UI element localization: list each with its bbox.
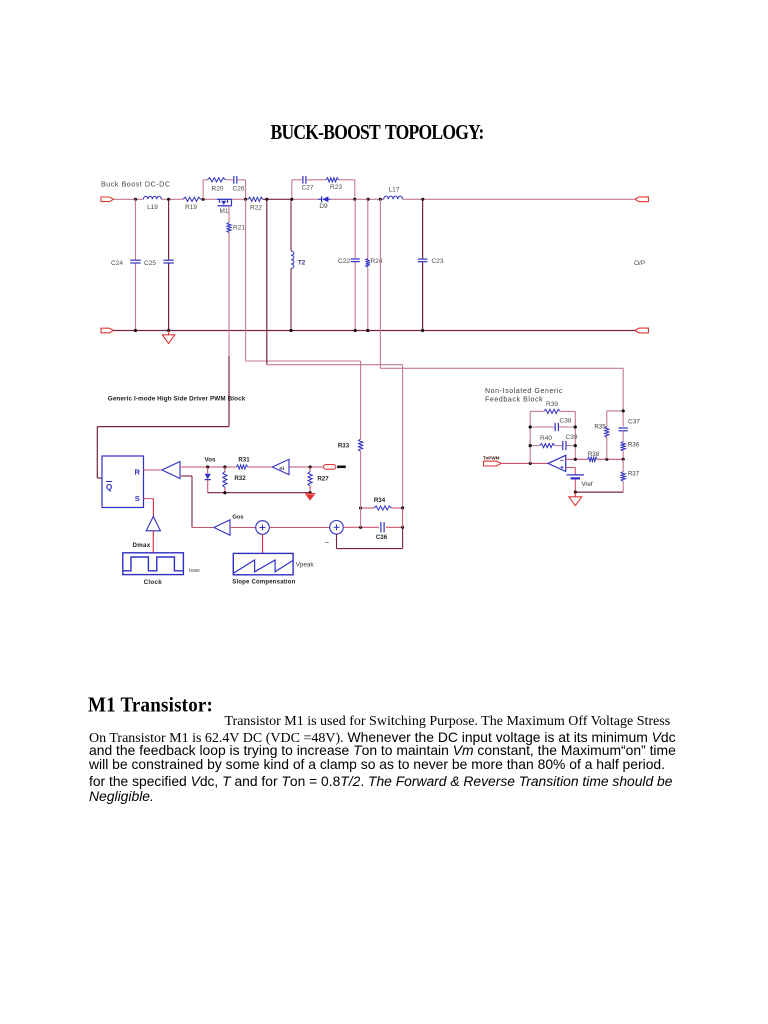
svg-text:S: S [135, 494, 140, 503]
capacitor C36 [380, 522, 382, 532]
svg-text:O/P: O/P [634, 260, 645, 267]
svg-text:R35: R35 [594, 424, 606, 431]
svg-text:R40: R40 [540, 435, 552, 442]
svg-text:R37: R37 [628, 471, 640, 478]
wire sum1-sum2 [269, 527, 329, 529]
flip-flop U2 [102, 456, 144, 508]
svg-text:R38: R38 [588, 451, 600, 458]
node r32t [223, 465, 226, 468]
transistor M1 [217, 198, 232, 200]
wire fb loop [529, 411, 531, 463]
svg-text:D9: D9 [319, 203, 328, 210]
node f7 [605, 458, 608, 461]
port OUT+ [635, 197, 649, 202]
wire S in [144, 498, 154, 500]
node n10 [421, 198, 424, 201]
svg-text:C36: C36 [376, 534, 388, 541]
wire vref dn [574, 480, 576, 493]
svg-text:R36: R36 [628, 442, 640, 449]
node g1 [223, 491, 226, 494]
svg-text:L19: L19 [147, 204, 158, 211]
wire opamp in [501, 462, 548, 464]
svg-text:R27: R27 [317, 476, 329, 483]
resistor R32 [224, 467, 226, 472]
node n1 [134, 198, 137, 201]
wire bottom rail [114, 330, 635, 332]
node n13 [289, 329, 292, 332]
svg-text:C38: C38 [560, 417, 572, 424]
svg-text:C22: C22 [338, 258, 350, 265]
capacitor C26 [233, 176, 235, 184]
port ToGate [324, 465, 336, 470]
wire gate [228, 206, 230, 223]
wire r36 dn [622, 451, 624, 459]
svg-text:Slope Compensation: Slope Compensation [232, 580, 295, 586]
wire clk [152, 531, 154, 553]
node f2 [529, 425, 532, 428]
capacitor C39 [562, 441, 564, 450]
paragraph lines [225, 714, 671, 730]
wire feed R34 [266, 199, 268, 364]
svg-text:R21: R21 [233, 225, 245, 232]
svg-text:R24: R24 [371, 258, 383, 265]
wire feed R33 [245, 199, 247, 361]
wire T2 branch [290, 199, 292, 251]
resistor R21 [227, 223, 231, 233]
wire fb to gos [181, 475, 192, 477]
ramp source U5 [233, 553, 293, 574]
capacitor C22 [351, 258, 360, 260]
ground GND1 [168, 331, 170, 335]
wire C25 branch [168, 199, 170, 260]
wire gate run [97, 426, 229, 428]
wire C24 branch [135, 199, 137, 260]
inductor L19 [143, 196, 161, 199]
resistor R24 [366, 259, 370, 268]
node a1out [309, 465, 312, 468]
inductor T2 [291, 251, 294, 268]
wire gnd rail [208, 492, 310, 494]
node f8 [574, 491, 577, 494]
summer SUM2 [330, 521, 344, 535]
svg-text:R: R [135, 468, 141, 477]
resistor R19 [183, 197, 201, 201]
resistor R34 [361, 507, 374, 509]
resistor R23 [326, 178, 339, 182]
wire feed FB [379, 199, 381, 368]
svg-text:R22: R22 [250, 205, 262, 212]
svg-text:Generic I-mode High Side Drive: Generic I-mode High Side Driver PWM Bloc… [108, 396, 246, 403]
capacitor C27 [302, 176, 304, 184]
node n15 [366, 329, 369, 332]
node c36l [359, 526, 362, 529]
node n6 [290, 198, 293, 201]
wire top rail [114, 198, 144, 200]
wire fb bottom [575, 491, 623, 493]
node n9 [379, 198, 382, 201]
battery Vref [567, 474, 584, 476]
wire C23 branch [422, 199, 424, 259]
resistor R40 [540, 444, 555, 448]
svg-text:R19: R19 [185, 204, 197, 211]
summer SUM1 [256, 521, 270, 535]
svg-text:C23: C23 [432, 258, 444, 265]
wire opamp minus [566, 458, 588, 460]
resistor R20 [208, 178, 226, 182]
inductor L17 [384, 196, 403, 199]
svg-text:Dmax: Dmax [132, 542, 150, 549]
svg-text:C27: C27 [302, 185, 314, 192]
svg-text:C25: C25 [144, 260, 156, 267]
comparator a1 [272, 459, 289, 474]
node n16 [421, 329, 424, 332]
wire R40 row [530, 445, 540, 447]
clock source U4 [123, 553, 184, 575]
node n12 [167, 329, 170, 332]
svg-text:C37: C37 [628, 418, 640, 425]
ground GND2 [305, 493, 315, 495]
svg-text:−: − [325, 538, 330, 547]
node f10 [622, 458, 625, 461]
port IN- [101, 328, 114, 333]
node Vos [206, 465, 209, 468]
capacitor C38 [554, 423, 556, 431]
wire opamp plus [566, 467, 576, 469]
capacitor C25 [163, 259, 173, 261]
node r34r [401, 506, 404, 509]
wire R in [144, 469, 163, 471]
wire snubber2 [291, 180, 293, 200]
wire c37 [622, 431, 624, 442]
node c36r [401, 526, 404, 529]
resistor R33 [359, 439, 363, 451]
svg-text:R34: R34 [374, 497, 386, 504]
node n7 [353, 198, 356, 201]
svg-text:Non-Isolated Generic: Non-Isolated Generic [485, 388, 563, 395]
svg-text:Vref: Vref [581, 481, 592, 488]
resistor R38 [588, 457, 598, 461]
wire snubber1 [202, 180, 204, 200]
wire C38 row [530, 426, 555, 428]
svg-text:C24: C24 [111, 260, 123, 267]
svg-text:L17: L17 [389, 187, 400, 194]
wire cmp line [180, 466, 208, 468]
svg-text:Clock: Clock [144, 579, 163, 586]
wire sum1 dn [262, 534, 264, 553]
node f6 [574, 458, 577, 461]
resistor R36 [621, 442, 625, 452]
capacitor C23 [418, 258, 428, 260]
node n4 [244, 198, 247, 201]
svg-text:C39: C39 [566, 434, 578, 441]
wire gos out [230, 527, 256, 529]
svg-text:a1: a1 [279, 465, 285, 470]
title [271, 120, 484, 145]
svg-text:R20: R20 [212, 186, 224, 193]
resistor R37 [622, 459, 624, 471]
node r34l [359, 506, 362, 509]
svg-text:C26: C26 [233, 186, 245, 193]
buffer U3 [162, 462, 180, 479]
capacitor C37 [619, 427, 628, 429]
node f5 [574, 444, 577, 447]
node fb1 [529, 462, 532, 465]
resistor R39 [544, 409, 560, 413]
buffer Dmax [146, 517, 160, 531]
node n14 [354, 329, 357, 332]
svg-text:T2: T2 [298, 260, 306, 267]
wire sum2 gnd [336, 534, 338, 549]
port OUT- [635, 328, 649, 333]
svg-text:R32: R32 [234, 475, 246, 482]
svg-text:Feedback Block: Feedback Block [485, 397, 543, 404]
diode D9 [318, 198, 322, 200]
node f4 [529, 444, 532, 447]
svg-text:M1: M1 [219, 208, 228, 215]
svg-text:Vos: Vos [205, 456, 216, 463]
resistor R27 [309, 467, 311, 472]
diode D10 [207, 467, 209, 474]
svg-text:Gos: Gos [232, 515, 243, 521]
wire sum2 out [343, 526, 379, 528]
port IN+ [101, 197, 114, 202]
svg-text:R33: R33 [338, 442, 350, 449]
resistor R35 [606, 411, 608, 427]
resistor R31 [236, 465, 247, 469]
wire r35 top [607, 410, 623, 412]
svg-text:R31: R31 [238, 456, 250, 463]
amp Gos [214, 520, 230, 536]
node n8 [367, 198, 370, 201]
svg-text:tsaw: tsaw [189, 568, 200, 574]
wire C22 branch [354, 199, 356, 258]
node f9 [622, 409, 625, 412]
wire r33-c36 [360, 451, 362, 527]
svg-text:Q: Q [106, 483, 112, 492]
capacitor C24 [130, 259, 140, 261]
svg-text:R39: R39 [546, 401, 558, 408]
node n3 [202, 198, 205, 201]
svg-text:Vpeak: Vpeak [296, 561, 315, 568]
svg-text:ToPWM: ToPWM [483, 456, 500, 461]
node g2 [309, 491, 312, 494]
svg-text:R23: R23 [330, 184, 342, 191]
wire r38 out [597, 458, 623, 460]
node n2 [167, 198, 170, 201]
wire R24 branch [367, 199, 369, 258]
node n11 [134, 329, 137, 332]
svg-text:Buck Boost DC-DC: Buck Boost DC-DC [101, 180, 171, 189]
resistor R22 [248, 197, 263, 201]
heading M1 Transistor [88, 694, 213, 718]
node n5 [265, 198, 268, 201]
op-amp U6 [548, 455, 566, 471]
ground GND3 [574, 492, 576, 497]
node f3 [574, 425, 577, 428]
